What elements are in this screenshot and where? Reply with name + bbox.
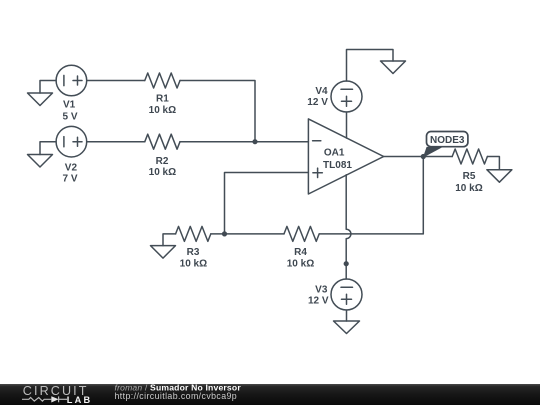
ground (V1) <box>28 93 53 106</box>
wire R4 to output node <box>319 157 423 234</box>
svg-text:R1: R1 <box>156 94 169 105</box>
wire R3 to ground corner <box>163 234 176 246</box>
svg-text:NODE3: NODE3 <box>430 135 465 146</box>
svg-text:LAB: LAB <box>67 395 93 405</box>
ground (R5) <box>487 170 512 183</box>
footer bar <box>0 384 540 405</box>
wire op-amp output <box>384 156 453 158</box>
wire non-inverting input <box>225 173 309 234</box>
voltage source V4 <box>331 81 362 112</box>
svg-text:V4: V4 <box>315 86 328 97</box>
svg-text:10 kΩ: 10 kΩ <box>149 167 176 178</box>
wire R1 to node A <box>180 81 255 142</box>
svg-text:OA1: OA1 <box>324 147 345 158</box>
logo diode <box>51 396 58 402</box>
svg-text:10 kΩ: 10 kΩ <box>180 259 207 270</box>
wire V2 to R2 <box>87 141 145 143</box>
svg-text:7 V: 7 V <box>62 173 77 184</box>
resistor R1 <box>145 73 180 88</box>
wire V3 to ground <box>346 310 348 321</box>
svg-text:R3: R3 <box>187 247 200 258</box>
resistor R5 <box>452 149 487 164</box>
node junction dot output NODE3 <box>421 154 426 159</box>
node junction dot R1/R2 <box>252 139 257 144</box>
svg-text:R2: R2 <box>156 156 169 167</box>
svg-text:V2: V2 <box>65 162 78 173</box>
wire V2 to ground corner <box>40 142 56 155</box>
op-amp U1 OA1 <box>308 119 383 194</box>
resistor R3 <box>176 226 211 241</box>
voltage source V3 <box>331 279 362 310</box>
wire V4 to ground <box>347 50 394 82</box>
wire V1 to ground corner <box>40 81 56 94</box>
ground (R3) <box>151 246 176 259</box>
svg-text:TL081: TL081 <box>323 160 352 171</box>
svg-text:R4: R4 <box>294 247 307 258</box>
wire R3 to R4 through node B <box>211 233 284 235</box>
svg-text:10 kΩ: 10 kΩ <box>455 183 482 194</box>
svg-text:http://circuitlab.com/cvbca9p: http://circuitlab.com/cvbca9p <box>115 391 238 401</box>
resistor R2 <box>145 134 180 149</box>
wire R5 to ground corner <box>487 157 499 170</box>
NODE3 flag pointer <box>423 147 443 158</box>
ground (V4) <box>381 61 406 74</box>
ground (V3) <box>334 321 360 334</box>
svg-text:10 kΩ: 10 kΩ <box>149 105 176 116</box>
svg-text:V3: V3 <box>315 285 328 296</box>
svg-text:10 kΩ: 10 kΩ <box>287 259 314 270</box>
NODE3 label flag <box>427 132 468 147</box>
svg-text:5 V: 5 V <box>62 112 77 123</box>
node junction dot R3/R4 <box>222 231 227 236</box>
CircuitLab logo mini schematic <box>22 396 67 402</box>
svg-text:V1: V1 <box>63 100 76 111</box>
svg-text:12 V: 12 V <box>307 97 328 108</box>
ground (V2) <box>28 155 53 168</box>
node junction dot V3 top <box>344 261 349 266</box>
svg-text:R5: R5 <box>463 171 476 182</box>
voltage source V2 <box>56 126 87 157</box>
wire V1 to R1 <box>87 80 145 82</box>
resistor R4 <box>284 226 319 241</box>
svg-text:12 V: 12 V <box>308 296 329 307</box>
wire R2 to op-amp inverting input <box>180 141 308 143</box>
wire V4 to op-amp V+ pin <box>346 112 348 138</box>
voltage source V1 <box>56 65 87 96</box>
wire op-amp V- pin to V3 with hop over feedback wire <box>346 175 351 279</box>
